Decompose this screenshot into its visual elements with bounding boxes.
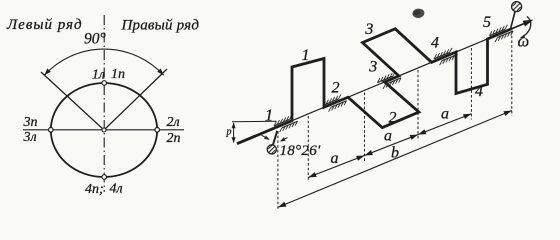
svg-text:4л: 4л xyxy=(110,182,123,197)
svg-text:Правый ряд: Правый ряд xyxy=(121,18,200,34)
svg-text:1: 1 xyxy=(265,106,274,125)
extension line E0 xyxy=(277,131,279,211)
end stem xyxy=(511,12,515,28)
svg-text:4: 4 xyxy=(475,83,483,100)
right diagonal crank line xyxy=(104,69,167,130)
bearing 2 support hatching xyxy=(323,94,347,111)
svg-text:3п: 3п xyxy=(23,115,38,130)
shaft end thin segment xyxy=(512,22,528,29)
horizontal centerline xyxy=(23,129,184,131)
axis end arrowhead xyxy=(523,20,534,27)
shaft axis centerline xyxy=(237,21,530,144)
extension line E4 xyxy=(470,48,472,120)
svg-text:р: р xyxy=(226,127,232,138)
svg-text:ω: ω xyxy=(518,32,530,51)
svg-text:2п: 2п xyxy=(167,131,181,146)
pivot circle hatched xyxy=(267,145,276,154)
cylinder circle xyxy=(51,83,157,177)
right diagram: crankshaft scheme xyxy=(226,2,534,211)
svg-text:3л: 3л xyxy=(23,130,37,145)
bearing 5 support hatching xyxy=(490,25,514,42)
svg-text:a: a xyxy=(331,150,339,167)
ink blob artifact xyxy=(412,8,425,19)
svg-text:4: 4 xyxy=(431,34,439,51)
node dot left 3 xyxy=(49,128,54,133)
extension line E3 xyxy=(417,70,419,141)
crank radius pendulum line xyxy=(273,131,278,145)
omega rotation arc xyxy=(521,17,531,38)
svg-text:2: 2 xyxy=(332,80,340,97)
svg-text:2: 2 xyxy=(389,110,397,127)
horizontal reference line xyxy=(232,120,277,123)
crankshaft thick outline xyxy=(237,29,512,144)
svg-text:a: a xyxy=(384,128,392,145)
svg-text:1п: 1п xyxy=(111,67,125,82)
bearing 4 support hatching xyxy=(434,48,458,65)
svg-text:3: 3 xyxy=(368,58,377,75)
svg-text:1л: 1л xyxy=(92,68,105,83)
vertical centerline xyxy=(103,15,105,192)
end circle hatched xyxy=(512,2,522,12)
node dot top 1 xyxy=(102,81,107,86)
svg-text:b: b xyxy=(391,145,399,162)
left diagonal crank line xyxy=(41,72,104,130)
node dot right 2 xyxy=(155,128,160,133)
extension line E5 xyxy=(511,31,513,116)
90 degree arc xyxy=(44,49,163,75)
center dot xyxy=(102,128,106,132)
svg-text:a: a xyxy=(441,106,449,123)
dimension b line xyxy=(278,111,512,208)
svg-text:2л: 2л xyxy=(167,115,180,130)
svg-text:4п;: 4п; xyxy=(85,182,104,197)
extension line E2 xyxy=(364,93,366,162)
r dimension line xyxy=(233,123,235,143)
bearing 1 support hatching xyxy=(274,115,298,132)
angle arrow right xyxy=(281,138,288,141)
svg-text:1: 1 xyxy=(302,47,310,64)
angle arrow left xyxy=(262,135,269,139)
node dot bottom 4 xyxy=(102,175,107,180)
svg-text:18°26′: 18°26′ xyxy=(280,143,321,159)
left diagram: crank angle circle xyxy=(6,15,199,197)
bearing 3 support hatching xyxy=(378,72,402,89)
dimension chain a-a-a xyxy=(308,114,471,178)
svg-text:3: 3 xyxy=(364,21,373,38)
extension line E1 xyxy=(307,116,309,182)
svg-text:90°: 90° xyxy=(84,31,106,48)
svg-text:5: 5 xyxy=(483,14,491,31)
svg-text:Левый ряд: Левый ряд xyxy=(6,17,83,33)
